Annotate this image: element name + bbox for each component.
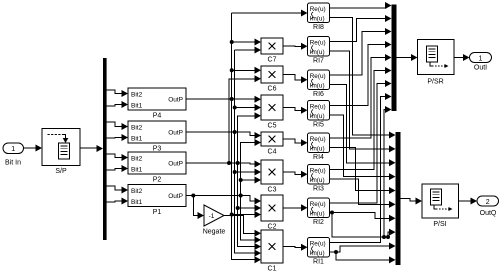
wire RI2 Im feedaround to muxI in9 (330, 106, 392, 239)
svg-text:P2: P2 (153, 177, 162, 184)
svg-text:Bit2: Bit2 (131, 124, 143, 131)
svg-text:-1: -1 (209, 213, 215, 220)
wire RI2 Re to muxI (330, 80, 392, 203)
svg-text:OutI: OutI (474, 64, 487, 71)
svg-text:RI1: RI1 (313, 259, 324, 266)
block P/SR buffer (418, 40, 455, 86)
svg-text:Im(u): Im(u) (310, 177, 325, 184)
wire demux out 7 (107, 186, 128, 194)
svg-text:RI5: RI5 (313, 122, 324, 129)
wire C1 to RI1 (283, 244, 308, 251)
product C6 (261, 66, 283, 93)
wire tap to C5 in2 (235, 104, 261, 111)
wire tap to C3 in3 (241, 177, 261, 184)
wire RI5 Re to muxI (330, 41, 392, 106)
wire muxI to P/SR (397, 54, 418, 61)
block S/P buffer (42, 129, 80, 176)
bus vertical P1 x240.7 (239, 139, 261, 243)
wire C2 to RI2 (283, 204, 308, 211)
wire demux out 4 (107, 134, 128, 141)
bus vertical P2b x237.7 (236, 112, 261, 250)
wire demux out 6 (107, 165, 128, 172)
complex-to-real-imag RI3 (308, 165, 330, 193)
svg-text:Bit1: Bit1 (131, 102, 143, 109)
outport 1 OutI (470, 53, 492, 72)
complex-to-real-imag RI7 (308, 37, 330, 65)
wire S/P to demux (80, 145, 103, 152)
svg-text:1: 1 (11, 146, 15, 153)
wire P1 to Negate (191, 194, 204, 220)
wire RI1 Im branch to muxQ in10 (336, 252, 396, 263)
svg-text:Im(u): Im(u) (310, 146, 325, 153)
svg-text:Im(u): Im(u) (310, 49, 325, 56)
bus vertical P2a x229 (227, 75, 261, 165)
wire P2 out (186, 161, 261, 168)
wire demux out 1 (107, 90, 128, 97)
svg-text:Im(u): Im(u) (310, 250, 325, 257)
svg-text:C1: C1 (268, 266, 277, 273)
svg-text:RI3: RI3 (313, 186, 324, 193)
wire feedaround branch to muxQ in8 (386, 229, 396, 239)
wire Bit In to S/P (24, 145, 43, 152)
wire RI7 Re to muxI (330, 15, 392, 42)
svg-text:Re(u): Re(u) (310, 39, 326, 46)
svg-text:RI2: RI2 (313, 219, 324, 226)
wire RI7 Im to muxQ (330, 51, 396, 152)
complex-to-real-imag RI8 (308, 3, 330, 31)
svg-text:S/P: S/P (55, 168, 67, 175)
svg-text:Re(u): Re(u) (310, 167, 326, 174)
wire RI6 Im to muxQ (330, 85, 396, 167)
svg-text:C4: C4 (268, 149, 277, 156)
inport 1 Bit In (3, 143, 24, 167)
subsystem P2 (128, 152, 186, 184)
svg-text:OutQ: OutQ (480, 210, 497, 217)
wire Negate out (224, 216, 261, 237)
svg-text:P1: P1 (153, 209, 162, 216)
svg-text:C5: C5 (268, 123, 277, 130)
wire tap to C2 in2 (238, 205, 261, 212)
gain Negate (203, 205, 226, 236)
svg-text:Re(u): Re(u) (310, 103, 326, 110)
wire tap to C3 in2 (235, 169, 261, 176)
svg-text:OutP: OutP (168, 130, 183, 137)
wire P4 out (186, 96, 261, 103)
wire RI5 Im to muxQ (330, 115, 396, 180)
product C3 (261, 160, 283, 194)
svg-text:RI8: RI8 (313, 24, 324, 31)
wire tap to C6 in1 (232, 67, 261, 74)
demux bar (103, 58, 107, 240)
wire demux out 3 (107, 122, 128, 130)
wire C3 to RI3 (283, 171, 308, 178)
wire RI8 Re to muxI (330, 2, 392, 9)
complex-to-real-imag RI4 (308, 133, 330, 161)
svg-text:RI4: RI4 (313, 154, 324, 161)
svg-text:Bit2: Bit2 (131, 188, 143, 195)
wire C5 to RI5 (283, 107, 308, 114)
svg-text:Re(u): Re(u) (310, 240, 326, 247)
svg-text:RI6: RI6 (313, 91, 324, 98)
svg-text:Bit2: Bit2 (131, 91, 143, 98)
svg-text:1: 1 (479, 55, 483, 62)
svg-text:C6: C6 (268, 86, 277, 93)
complex-to-real-imag RI2 (308, 198, 330, 226)
bus vertical P4 x231.7 (230, 13, 261, 263)
mux Q bar (396, 132, 401, 265)
svg-text:Re(u): Re(u) (310, 201, 326, 208)
svg-text:OutP: OutP (168, 193, 183, 200)
svg-text:Im(u): Im(u) (310, 211, 325, 218)
svg-text:Im(u): Im(u) (310, 83, 325, 90)
complex-to-real-imag RI6 (308, 70, 330, 98)
svg-text:Im(u): Im(u) (310, 113, 325, 120)
outport 2 OutQ (477, 196, 499, 217)
svg-text:C3: C3 (268, 187, 277, 194)
svg-text:Re(u): Re(u) (310, 136, 326, 143)
svg-text:P/SI: P/SI (433, 221, 446, 228)
svg-text:Negate: Negate (203, 229, 226, 236)
product C4 (261, 132, 283, 156)
wire muxQ to P/SI (401, 198, 423, 205)
complex-to-real-imag RI5 (308, 101, 330, 129)
wire demux out 8 (107, 198, 128, 205)
wire P3 out (186, 132, 261, 139)
svg-text:Bit2: Bit2 (131, 155, 143, 162)
subsystem P3 (128, 121, 186, 153)
wire RI3 Re to muxI (330, 67, 392, 170)
wire C6 to RI6 (283, 75, 308, 84)
product C1 (261, 230, 283, 273)
wire demux out 2 (107, 101, 128, 108)
wire tap to C2 in3 (232, 211, 261, 218)
wire P/SI to OutQ (459, 198, 478, 205)
svg-text:P/SR: P/SR (427, 79, 443, 86)
wire RI1 Re to muxI (330, 93, 392, 243)
wire RI3 Im to muxQ (330, 179, 396, 208)
svg-text:Re(u): Re(u) (310, 73, 326, 80)
wire tap to C7 in1 (232, 39, 261, 46)
svg-text:Re(u): Re(u) (310, 6, 326, 13)
svg-text:C7: C7 (268, 57, 277, 64)
wire RI4 Re to muxI (330, 54, 392, 138)
svg-text:Bit1: Bit1 (131, 199, 143, 206)
svg-text:P3: P3 (153, 146, 162, 153)
wire RI2 Im to muxQ (330, 213, 396, 222)
wire P/SR to OutI (454, 54, 470, 61)
svg-text:2: 2 (486, 199, 490, 206)
subsystem P4 (128, 88, 186, 120)
wire tap to C7 in2 (235, 47, 261, 54)
wire P4 to RI8 (232, 10, 308, 17)
product C2 (261, 195, 283, 231)
svg-text:OutP: OutP (168, 161, 183, 168)
svg-text:Bit1: Bit1 (131, 135, 143, 142)
svg-text:Im(u): Im(u) (310, 16, 325, 23)
svg-text:OutP: OutP (168, 97, 183, 104)
svg-text:Bit1: Bit1 (131, 166, 143, 173)
wire RI6 Re to muxI (330, 28, 392, 75)
wire RI4 Im to muxQ (330, 148, 396, 195)
svg-text:RI7: RI7 (313, 58, 324, 65)
product C5 (261, 95, 283, 130)
wire C4 to RI4 (283, 139, 308, 146)
bus vertical P3 x234.7 (233, 50, 261, 257)
block P/SI buffer (422, 184, 459, 228)
product C7 (261, 38, 283, 64)
wire P1 out (186, 196, 261, 205)
svg-text:P4: P4 (153, 113, 162, 120)
wire demux out 5 (107, 154, 128, 161)
svg-text:C2: C2 (268, 224, 277, 231)
svg-text:Bit In: Bit In (5, 160, 21, 167)
wire C7 to RI7 (283, 43, 308, 50)
mux I bar (392, 5, 397, 112)
wire RI8 Im to muxQ (330, 18, 396, 139)
wire RI1 Im to muxQ in9 (330, 243, 396, 255)
complex-to-real-imag RI1 (308, 238, 330, 266)
subsystem P1 (128, 185, 186, 217)
